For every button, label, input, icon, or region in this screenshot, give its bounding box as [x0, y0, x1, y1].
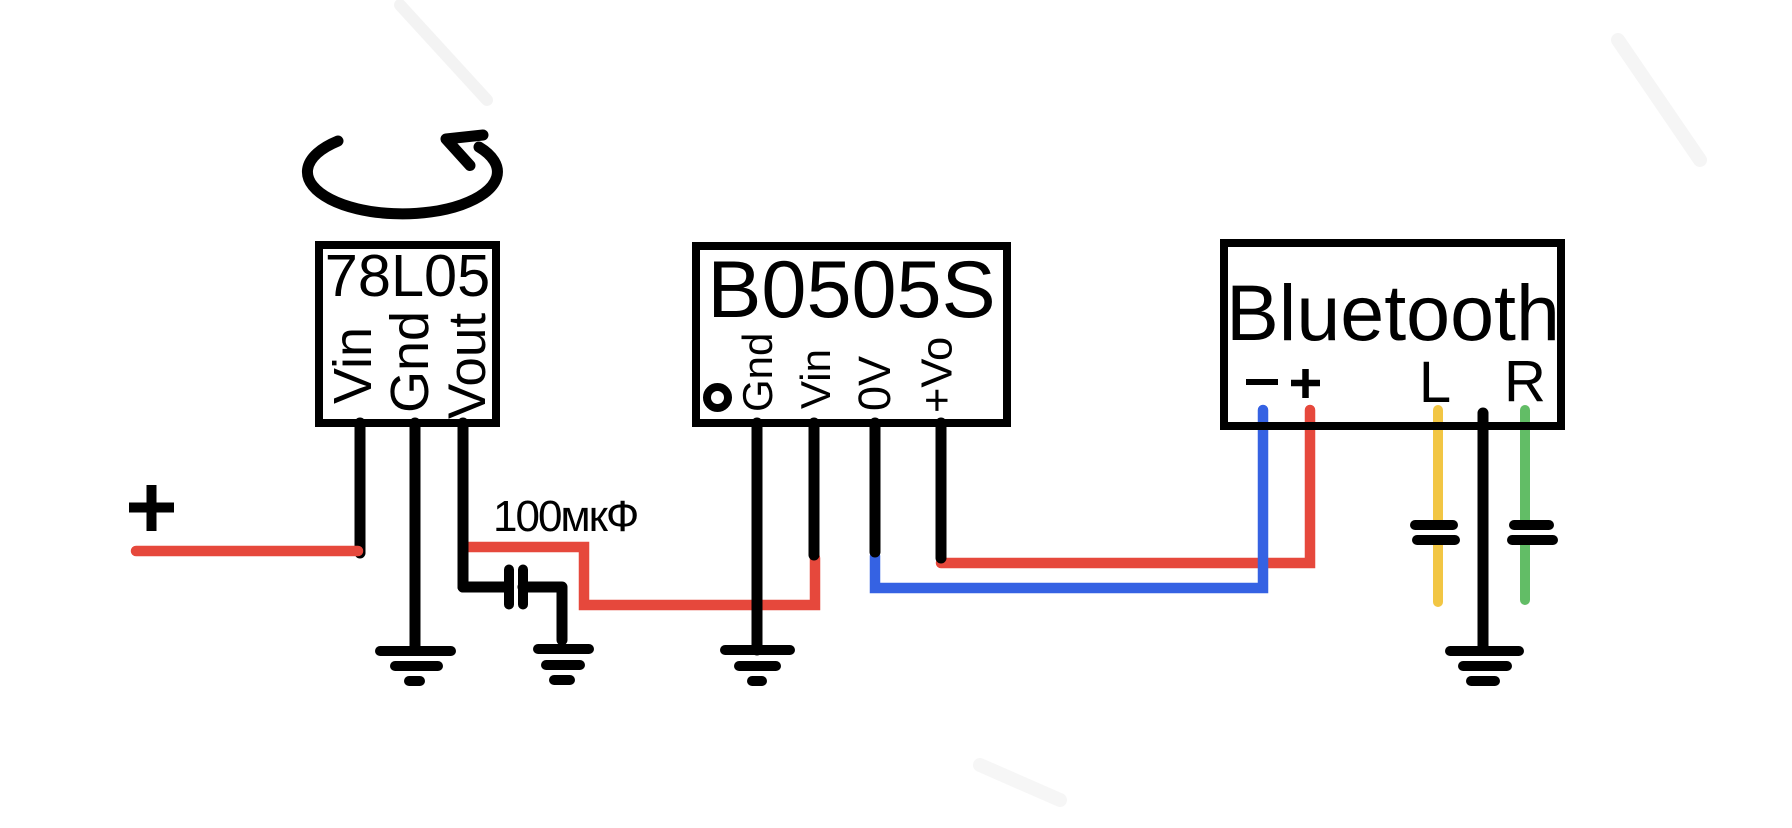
ground under capacitor C1	[538, 649, 589, 680]
plus terminal	[129, 485, 174, 531]
paper smudge top left	[400, 5, 487, 100]
svg-text:100мкФ: 100мкФ	[493, 492, 637, 541]
svg-text:R: R	[1504, 349, 1546, 414]
B0505S pin +Vo wire	[936, 423, 947, 558]
paper smudge top right	[1618, 40, 1700, 160]
U3 pin label plus	[1291, 369, 1320, 398]
wire red from + input to 78L05 Vin	[136, 546, 358, 557]
ground under B0505S Gnd	[725, 650, 790, 681]
U3 pin label minus	[1246, 379, 1278, 385]
ground under Bluetooth	[1450, 651, 1519, 681]
ground under 78L05 Gnd	[380, 651, 451, 681]
wire green Bluetooth R lower	[1520, 544, 1530, 600]
paper smudge bottom center	[980, 765, 1060, 800]
svg-text:78L05: 78L05	[325, 242, 490, 309]
B0505S pin Gnd wire	[752, 423, 763, 650]
svg-text:+Vo: +Vo	[914, 337, 962, 413]
module U3 Bluetooth box	[1224, 243, 1561, 426]
wire yellow Bluetooth L upper	[1433, 410, 1443, 521]
svg-text:Gnd: Gnd	[734, 333, 781, 412]
svg-text:L: L	[1419, 350, 1451, 415]
svg-text:Gnd: Gnd	[380, 311, 440, 413]
regulator U1 78L05 box	[319, 245, 496, 423]
capacitor C2 on L bottom plate	[1417, 535, 1455, 545]
wire red from B0505S +Vo to Bluetooth +	[941, 410, 1310, 563]
capacitor C1 100mkF left lead	[463, 582, 504, 593]
78L05 pin Vin wire	[355, 423, 366, 553]
wire green Bluetooth R upper	[1520, 410, 1530, 521]
capacitor C2 on L top plate	[1415, 520, 1453, 530]
capacitor C3 on R bottom plate	[1512, 535, 1553, 545]
wire red from 78L05 Vout to B0505S Vin	[466, 547, 815, 605]
svg-text:Bluetooth: Bluetooth	[1226, 268, 1560, 357]
U2 pin-1 dot	[707, 387, 728, 408]
wire yellow Bluetooth L lower	[1433, 544, 1443, 602]
rotation arrow above 78L05	[307, 141, 497, 214]
B0505S pin Vin wire	[809, 423, 820, 555]
svg-text:Vin: Vin	[323, 327, 383, 404]
capacitor C3 on R top plate	[1514, 520, 1549, 530]
svg-text:Vout: Vout	[438, 313, 497, 419]
78L05 pin Gnd wire	[410, 423, 421, 649]
svg-text:0V: 0V	[849, 356, 900, 411]
capacitor C1 right lead to ground	[523, 587, 562, 640]
Bluetooth ground wire	[1478, 413, 1489, 650]
78L05 pin Vout wire	[458, 423, 469, 587]
converter U2 B0505S box	[696, 246, 1007, 423]
svg-text:Vin: Vin	[792, 349, 839, 409]
wire blue from B0505S 0V to Bluetooth minus	[875, 410, 1263, 588]
capacitor C1 right plate	[518, 570, 528, 605]
B0505S pin 0V wire	[870, 423, 881, 552]
svg-text:B0505S: B0505S	[707, 245, 995, 335]
rotation arrow head	[446, 135, 483, 166]
capacitor C1 left plate	[504, 570, 514, 605]
